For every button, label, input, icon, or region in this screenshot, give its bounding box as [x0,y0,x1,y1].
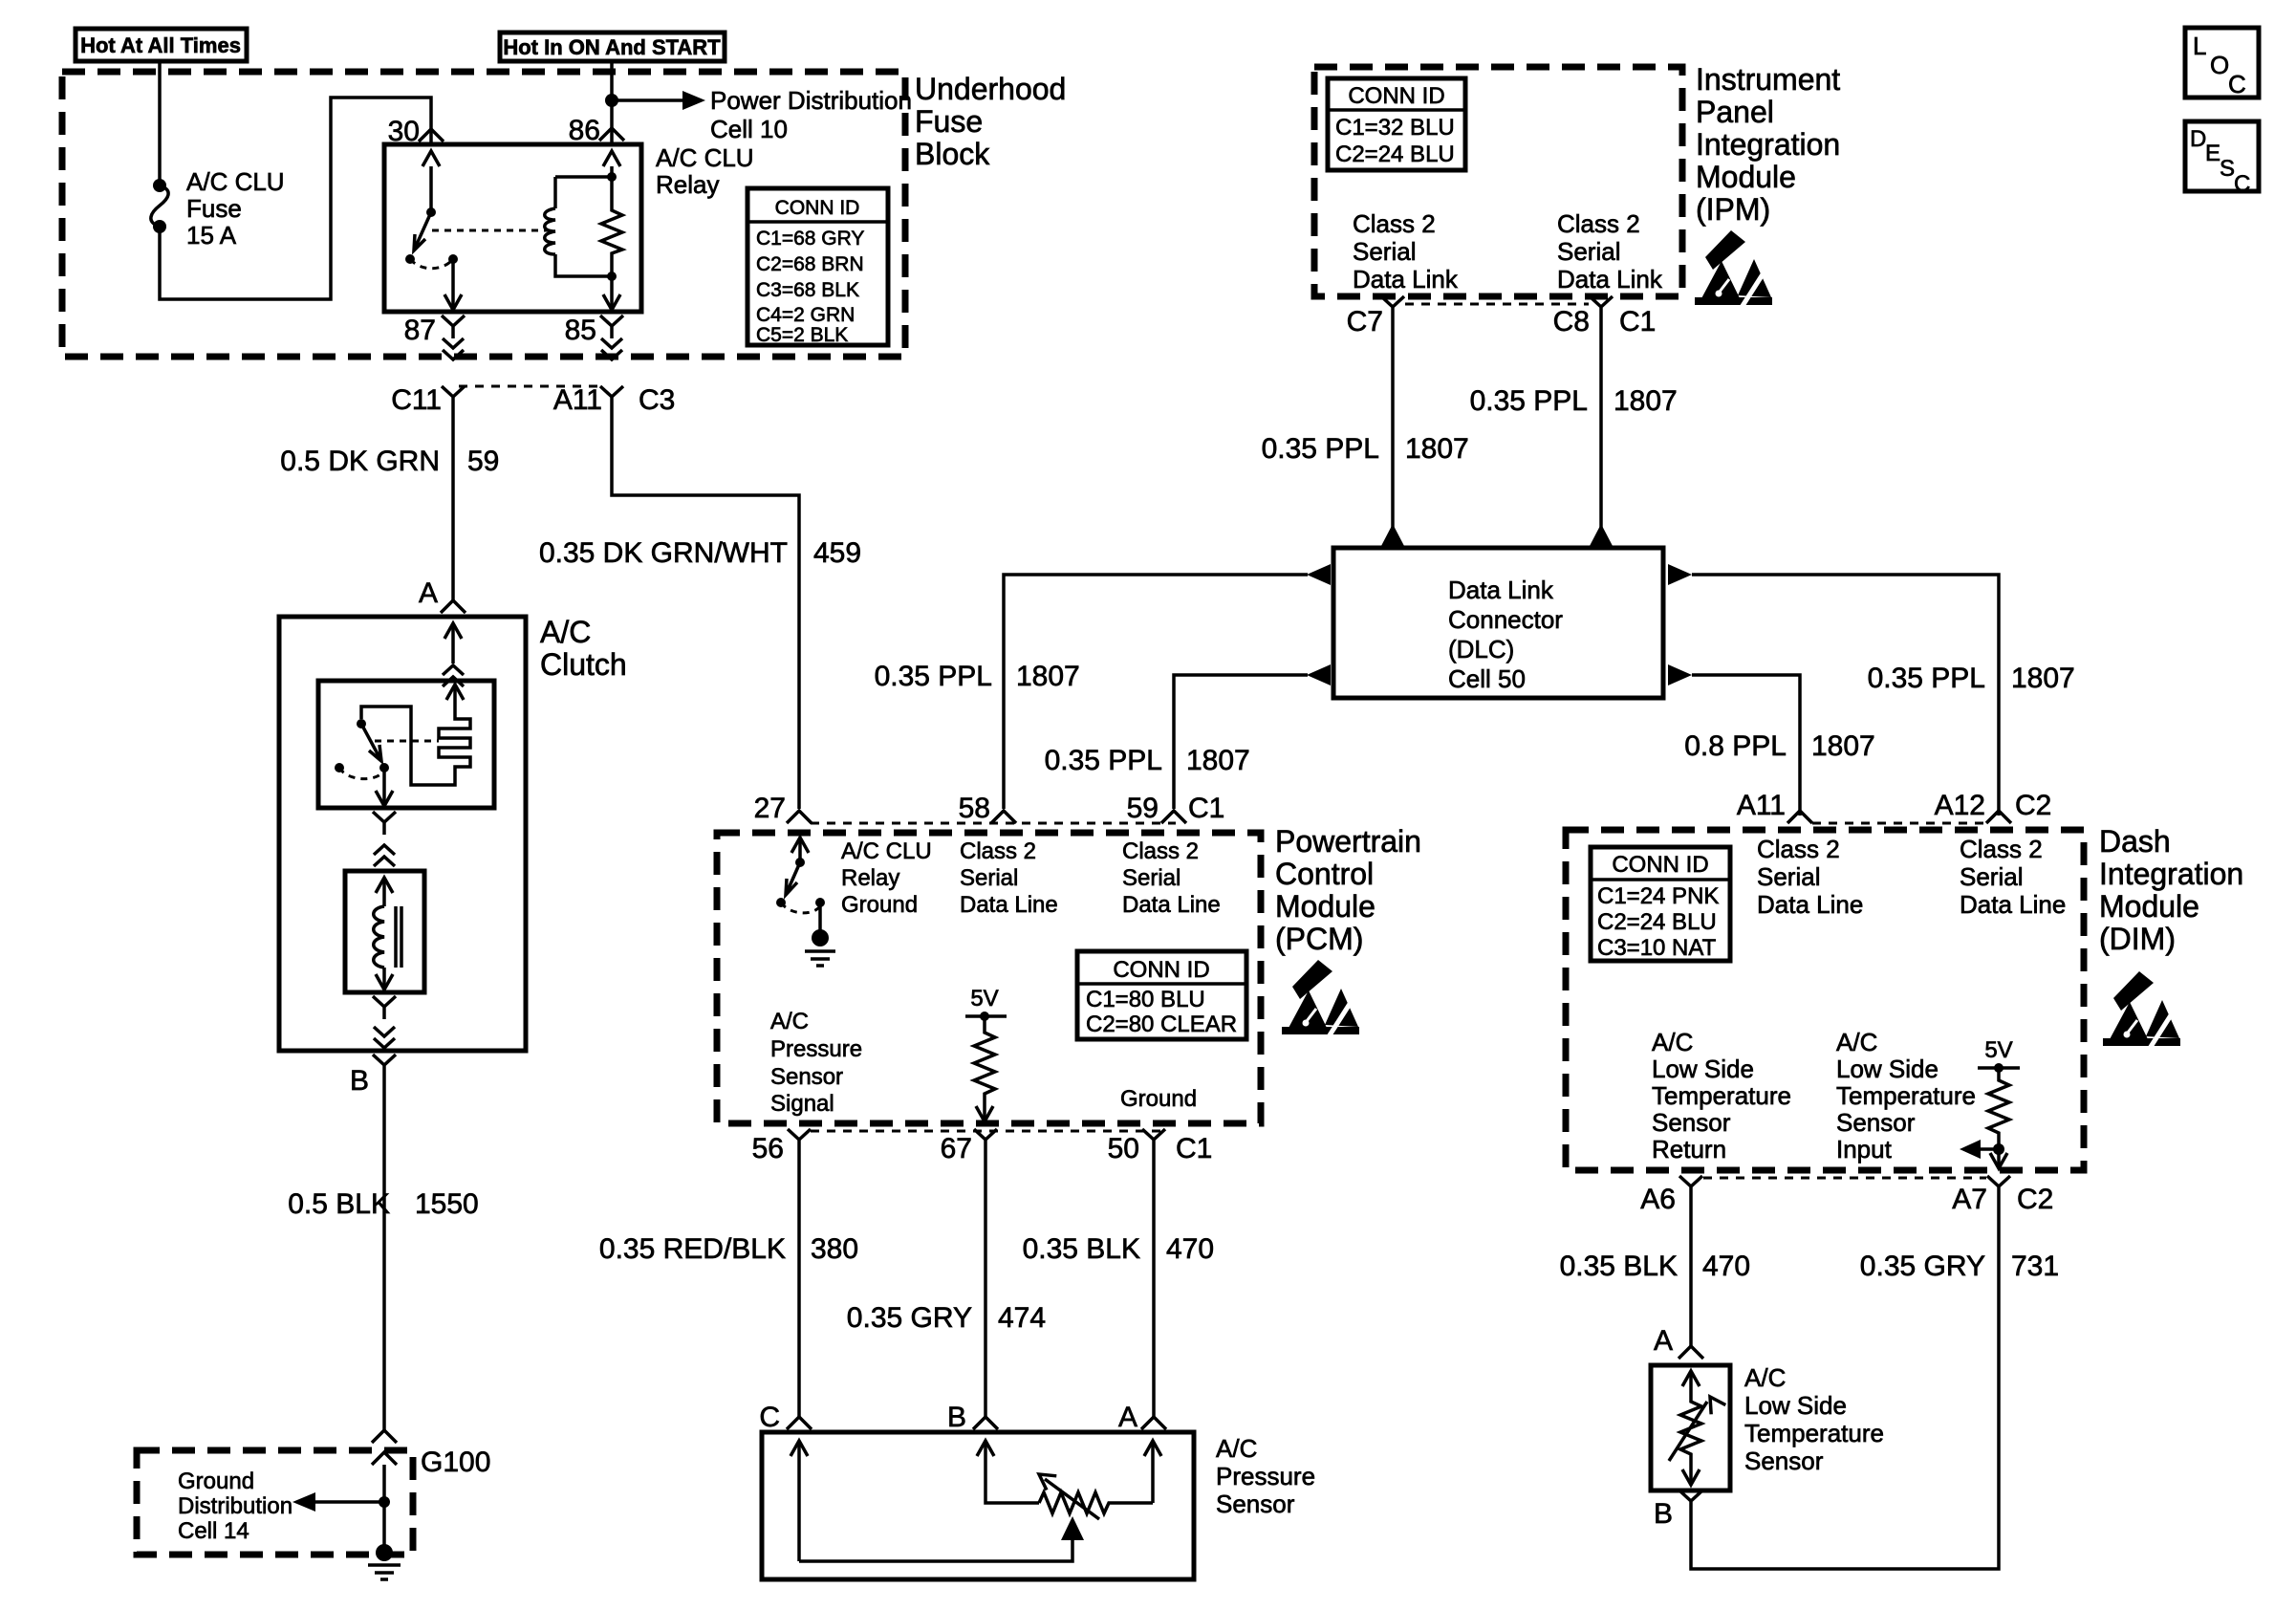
label: A/C Clutch [540,615,627,682]
svg-text:Panel: Panel [1696,95,1774,129]
CONN ID table (fuse block) [747,188,888,346]
svg-text:(DIM): (DIM) [2099,922,2176,956]
svg-text:(PCM): (PCM) [1275,922,1363,956]
terminal A connector (temp sensor) [1679,1346,1703,1359]
terminal A7 connector [1987,1176,2010,1199]
svg-text:Temperature: Temperature [1836,1081,1976,1110]
svg-text:Serial: Serial [1960,862,2023,891]
svg-text:E: E [2205,141,2220,166]
svg-text:Block: Block [915,137,990,171]
header box: Hot In ON And START [500,33,725,61]
pressure sensor C entry arrow [791,1441,808,1561]
svg-text:1550: 1550 [415,1188,479,1220]
svg-text:Pressure: Pressure [770,1036,862,1062]
svg-text:A: A [419,577,438,609]
pressure sensor B entry arrow [977,1441,1039,1503]
svg-text:1807: 1807 [1405,433,1469,465]
svg-text:Relay: Relay [656,170,719,199]
PCM relay-ground switch post [791,838,809,867]
terminal 30 connector [419,129,444,141]
svg-text:50: 50 [1108,1133,1139,1164]
wire from Hot At All Times to fuse [158,61,162,185]
CONN ID table (PCM) [1077,951,1246,1039]
svg-text:C2=80 CLEAR: C2=80 CLEAR [1086,1012,1237,1037]
svg-text:Cell 14: Cell 14 [178,1518,249,1544]
svg-text:0.35 DK GRN/WHT: 0.35 DK GRN/WHT [539,537,788,569]
svg-text:C2=68 BRN: C2=68 BRN [756,253,864,275]
clutch coil L [374,906,384,968]
svg-text:Module: Module [2099,889,2199,924]
svg-text:C1=80 BLU: C1=80 BLU [1086,987,1205,1012]
svg-text:474: 474 [998,1302,1046,1334]
wire temp sensor B to DIM A7 (0.35 GRY 731) [1691,1199,1999,1569]
relay coil link dashed [432,229,548,232]
clutch switch open contact [335,763,344,772]
header box: Hot At All Times [76,29,247,61]
svg-text:C: C [759,1402,780,1433]
terminal B connector [373,1055,396,1077]
svg-text:C2=24 BLU: C2=24 BLU [1335,141,1455,167]
fuse F (A/C CLU Fuse 15A) [151,179,168,233]
terminal 59 connector [1161,811,1186,823]
temp sensor entry arrow [1682,1371,1700,1398]
temp sensor thermistor RT [1680,1398,1701,1459]
DIM 5V rail [1978,1063,2020,1073]
svg-text:A/C: A/C [1216,1434,1257,1463]
svg-text:15 A: 15 A [186,221,237,250]
svg-text:5V: 5V [970,986,998,1012]
connector above coil box [374,845,395,866]
label: Class 2 Serial Data Link (C7) [1353,209,1459,294]
A/C low side temperature sensor box [1651,1365,1730,1490]
terminal A12 connector (DIM) [1986,811,2011,823]
svg-text:67: 67 [941,1133,972,1164]
svg-text:459: 459 [813,537,861,569]
DLC right arrow bottom [1668,664,1692,685]
svg-text:O: O [2210,51,2229,79]
svg-text:A/C: A/C [770,1009,809,1034]
svg-text:86: 86 [569,115,600,146]
G100 dashed box [137,1450,413,1555]
svg-text:Input: Input [1836,1135,1893,1164]
svg-text:470: 470 [1166,1233,1214,1265]
svg-text:0.35 BLK: 0.35 BLK [1023,1233,1140,1265]
svg-text:A/C: A/C [1836,1028,1877,1056]
svg-text:0.35 PPL: 0.35 PPL [1262,433,1379,465]
svg-text:27: 27 [754,793,786,824]
svg-text:0.8 PPL: 0.8 PPL [1684,730,1787,762]
PCM 5V rail [965,1012,1007,1021]
svg-text:CONN ID: CONN ID [1348,83,1444,109]
svg-text:Class 2: Class 2 [1960,835,2043,863]
G100 wire [382,1465,386,1553]
wire DLC to DIM A12 (0.35 PPL 1807) [1692,575,1999,816]
svg-text:Module: Module [1275,889,1375,924]
svg-text:Connector: Connector [1448,605,1563,634]
svg-text:Data Line: Data Line [1960,890,2066,919]
svg-text:Low Side: Low Side [1652,1055,1754,1083]
terminal C connector (pressure sensor) [787,1417,812,1429]
label: Class 2 Serial Data Line (A12 DIM) [1960,835,2066,919]
svg-text:Fuse: Fuse [186,194,242,223]
G100 inner connector [372,1452,397,1465]
label: Underhood Fuse Block [915,72,1066,171]
DIM sensor input arrow [1960,1140,1999,1159]
label: Powertrain Control Module (PCM) [1275,824,1421,956]
svg-text:Class 2: Class 2 [1557,209,1640,238]
svg-text:B: B [1654,1498,1673,1530]
label: Class 2 Serial Data Line (pin 59) [1122,838,1221,918]
svg-text:Power Distribution: Power Distribution [710,86,912,115]
IPM dashed box [1314,67,1682,296]
svg-text:Relay: Relay [841,865,899,891]
PCM switch contact node [815,898,825,907]
G100 entry connector [372,1430,397,1443]
svg-text:1807: 1807 [2011,663,2075,694]
label: Ground Distribution Cell 14 [178,1469,292,1544]
relay switch blade [405,212,431,264]
svg-text:58: 58 [959,793,990,824]
svg-text:A/C CLU: A/C CLU [841,838,932,864]
svg-text:Sensor: Sensor [1744,1447,1824,1475]
PCM resistor ground arrow [976,1105,993,1121]
PCM switch blade [776,862,800,907]
svg-text:Data Link: Data Link [1557,265,1663,294]
svg-text:C1=32 BLU: C1=32 BLU [1335,115,1455,141]
PCM top connector dashed line [811,822,1176,825]
svg-text:Class 2: Class 2 [960,838,1036,864]
svg-text:Module: Module [1696,160,1796,194]
clutch switch blade [361,724,389,772]
svg-text:Clutch: Clutch [540,647,627,682]
CONN ID table (DIM) [1591,847,1730,961]
svg-text:0.35 PPL: 0.35 PPL [1868,663,1985,694]
PCM bottom connector dashed line [811,1130,1164,1133]
svg-text:0.35 RED/BLK: 0.35 RED/BLK [599,1233,786,1265]
svg-text:Hot In ON And START: Hot In ON And START [503,35,721,59]
svg-text:Distribution: Distribution [178,1493,292,1519]
svg-text:C: C [2228,70,2246,98]
terminal 67 connector [974,1129,997,1152]
PCM pull-up resistor [974,1016,995,1105]
svg-text:0.35 GRY: 0.35 GRY [847,1302,972,1334]
svg-text:C5=2 BLK: C5=2 BLK [756,324,848,346]
coil entry arrow [376,878,393,906]
DLC left arrow bottom [1307,664,1331,685]
clutch exit boundary arrows [374,1027,395,1048]
svg-text:Return: Return [1652,1135,1726,1164]
wire PCM 50 to pressure sensor A (0.35 BLK 470) [1152,1152,1156,1417]
wire C7 to DLC (0.35 PPL 1807) [1391,319,1395,528]
svg-text:1807: 1807 [1016,661,1080,692]
svg-text:Ground: Ground [841,892,918,918]
svg-text:C1: C1 [1188,793,1224,824]
wire A6 to temp sensor (0.35 BLK 470) [1689,1199,1693,1346]
svg-text:0.35 BLK: 0.35 BLK [1560,1251,1678,1282]
svg-text:Data Link: Data Link [1353,265,1459,294]
svg-text:A6: A6 [1640,1184,1676,1215]
label: A/C CLU Relay [656,143,754,199]
svg-text:Instrument: Instrument [1696,62,1840,97]
DLC left arrow top [1307,564,1331,585]
coil exit arrow [376,968,393,990]
CONN ID table (IPM) [1328,78,1465,170]
svg-text:5V: 5V [1984,1037,2012,1063]
PCM switch dashed arc [781,903,819,913]
relay switch contact dashed arc [410,259,453,269]
relay switch pin30 post [422,151,440,217]
svg-text:0.35 PPL: 0.35 PPL [1045,745,1162,776]
label: A/C Low Side Temperature Sensor Input [1836,1028,1976,1164]
DLC top arrow C8 [1590,524,1613,546]
svg-text:A/C: A/C [540,615,591,649]
relay K (A/C CLU Relay) box [384,144,641,312]
svg-text:Temperature: Temperature [1652,1081,1791,1110]
terminal A connector [441,600,466,613]
label: Power Distribution Cell 10 [710,86,912,143]
wire from Hot In ON And START to relay pin 86 [610,61,614,144]
terminal C8 connector [1590,296,1613,319]
svg-text:Pressure: Pressure [1216,1462,1315,1490]
wire from fuse to relay pin 30 [160,98,431,299]
svg-text:Dash: Dash [2099,824,2171,859]
terminal 58 connector [991,811,1016,823]
svg-text:Low Side: Low Side [1744,1391,1847,1420]
label: Data Link Connector (DLC) Cell 50 [1448,576,1563,693]
wire C11 to A/C clutch (0.5 DK GRN 59) [451,409,455,600]
clutch entry arrow [444,623,462,664]
arrow to Power Distribution Cell 10 [612,91,705,110]
coil core lines [396,906,401,968]
svg-text:Integration: Integration [2099,857,2243,891]
temp sensor exit arrow [1682,1459,1700,1485]
label: Instrument Panel Integration Module (IPM) [1696,62,1840,227]
svg-text:C7: C7 [1347,306,1383,337]
svg-text:0.5 BLK: 0.5 BLK [288,1188,390,1220]
thermistor variable arrow [1669,1392,1725,1461]
svg-text:C: C [2234,171,2250,197]
clutch switch output wire [376,768,393,806]
svg-text:Serial: Serial [1353,237,1416,266]
DLC box [1333,548,1663,698]
label: A/C Low Side Temperature Sensor Return [1652,1028,1791,1164]
svg-text:Fuse: Fuse [915,104,983,139]
svg-text:0.35 PPL: 0.35 PPL [1470,385,1588,417]
relay switch contact node [448,254,458,264]
svg-text:L: L [2193,32,2206,60]
svg-text:Control: Control [1275,857,1374,891]
node: junction power distribution [605,94,618,107]
svg-text:G100: G100 [421,1447,490,1478]
svg-text:C2: C2 [2017,1184,2053,1215]
svg-text:S: S [2220,156,2235,182]
svg-text:B: B [350,1065,369,1097]
svg-text:B: B [947,1402,966,1433]
svg-text:Temperature: Temperature [1744,1419,1884,1447]
DIM bottom connector dashed line [1703,1177,1986,1180]
svg-text:Sensor: Sensor [1216,1490,1295,1518]
wire PCM 67 to pressure sensor B (0.35 GRY 474) [984,1152,987,1417]
svg-text:Serial: Serial [1122,865,1180,891]
thermal fuse comb [439,715,470,772]
terminal 27 connector [787,811,812,823]
svg-text:Hot At All Times: Hot At All Times [80,33,241,57]
connector C11 [442,386,465,409]
svg-text:A11: A11 [1737,790,1786,821]
potentiometer wiper arrow [799,1516,1084,1561]
DIM pull-up resistor [1988,1068,2009,1149]
wire 87 through boundary [443,338,464,359]
wire C8 to DLC (0.35 PPL 1807) [1599,319,1603,528]
svg-text:Powertrain: Powertrain [1275,824,1421,859]
thermal fuse entry arrow [446,685,464,715]
svg-text:Data Line: Data Line [1122,892,1221,918]
wire DLC to DIM A11 (0.8 PPL 1807) [1692,675,1800,816]
relay pin86-85 wire [603,151,620,310]
connector boundary dashed line C11-A11 [459,385,604,388]
clutch switch dashed link [375,740,439,743]
terminal 50 connector [1142,1129,1165,1152]
G100 junction node [379,1496,390,1508]
svg-text:Data Link: Data Link [1448,576,1554,604]
connector below switch box [373,812,396,835]
label: Dash Integration Module (DIM) [2099,824,2243,956]
svg-text:A/C CLU: A/C CLU [186,167,285,196]
terminal 56 connector [788,1129,811,1152]
svg-text:Sensor: Sensor [770,1064,843,1090]
svg-text:87: 87 [404,315,436,346]
svg-text:Ground: Ground [1120,1086,1197,1112]
A/C clutch box [279,617,526,1051]
wire PCM 58 to DLC [1004,575,1308,809]
svg-text:C3=68 BLK: C3=68 BLK [756,279,859,301]
PCM dashed box [717,833,1261,1123]
svg-text:Underhood: Underhood [915,72,1066,106]
pressure sensor A entry arrow [1144,1441,1161,1503]
clutch coil box [345,871,424,992]
svg-text:A12: A12 [1935,790,1985,821]
label: Class 2 Serial Data Line (pin 58) [960,838,1058,918]
relay coil [545,177,612,276]
svg-text:A/C: A/C [1744,1363,1786,1392]
DIM top connector dashed line [1812,822,1986,825]
svg-text:Class 2: Class 2 [1757,835,1840,863]
svg-text:(IPM): (IPM) [1696,192,1770,227]
svg-text:Low Side: Low Side [1836,1055,1939,1083]
svg-text:Serial: Serial [1557,237,1620,266]
svg-text:A: A [1118,1402,1137,1433]
clutch thermal switch box [318,681,494,808]
svg-text:380: 380 [811,1233,858,1265]
svg-text:Ground: Ground [178,1469,254,1494]
svg-text:D: D [2190,126,2206,152]
LOC box [2185,28,2259,98]
thermal fuse return wire [361,707,455,785]
relay resistor [601,206,622,256]
clutch switch pivot [357,719,366,729]
svg-text:A/C: A/C [1652,1028,1693,1056]
svg-text:731: 731 [2011,1251,2059,1282]
svg-text:Signal: Signal [770,1091,834,1117]
svg-text:Serial: Serial [1757,862,1820,891]
ESD symbol DIM [2103,971,2180,1050]
svg-text:Data Line: Data Line [1757,890,1863,919]
label: Class 2 Serial Data Link (C8) [1557,209,1663,294]
wire PCM 56 to pressure sensor C (0.35 RED/BLK 380) [797,1152,801,1417]
svg-text:0.35 GRY: 0.35 GRY [1860,1251,1985,1282]
clutch switch dashed arc [339,768,382,779]
terminal B connector (temp sensor) [1679,1490,1702,1513]
connector A11 [600,386,623,409]
connector below coil box [373,996,396,1019]
DESC box [2185,121,2259,197]
svg-text:Class 2: Class 2 [1353,209,1436,238]
svg-text:C1=24 PNK: C1=24 PNK [1597,883,1719,909]
ground symbol (PCM internal) [805,929,835,966]
wire 85 through boundary [601,338,622,359]
svg-text:59: 59 [1127,793,1159,824]
svg-text:C3=10 NAT: C3=10 NAT [1597,935,1717,961]
wire PCM 59 to DLC [1174,675,1308,809]
svg-text:Sensor: Sensor [1836,1108,1916,1137]
svg-text:Cell 50: Cell 50 [1448,664,1526,693]
label: Class 2 Serial Data Line (A11 DIM) [1757,835,1863,919]
terminal 87 connector [442,315,465,338]
label: A/C CLU Relay Ground [841,838,932,918]
svg-text:0.5 DK GRN: 0.5 DK GRN [280,446,440,477]
ESD symbol PCM [1282,960,1359,1038]
svg-text:1807: 1807 [1614,385,1678,417]
underhood fuse block dashed box [62,72,905,357]
terminal A11 connector (DIM) [1787,811,1812,823]
potentiometer diagonal arrow [1034,1468,1099,1519]
label: A/C Low Side Temperature Sensor [1744,1363,1884,1475]
svg-text:Serial: Serial [960,865,1018,891]
svg-text:Sensor: Sensor [1652,1108,1731,1137]
terminal 86 connector [599,128,624,141]
terminal A connector (pressure sensor) [1141,1417,1166,1429]
relay pin87 internal wire [444,259,462,310]
wire A11/C3 to PCM 27 (0.35 DK GRN/WHT 459) [612,409,799,809]
svg-text:CONN ID: CONN ID [775,197,860,219]
svg-text:A/C CLU: A/C CLU [656,143,754,172]
svg-text:A11: A11 [553,384,602,416]
svg-text:A: A [1654,1325,1673,1357]
svg-text:Cell 10: Cell 10 [710,115,788,143]
DIM dashed box [1566,830,2084,1170]
svg-text:56: 56 [752,1133,784,1164]
DIM resistor bottom arrow [1990,1149,2007,1168]
terminal C7 connector [1381,296,1404,319]
svg-text:C8: C8 [1553,306,1590,337]
svg-text:(DLC): (DLC) [1448,635,1514,664]
svg-text:C2=24 BLU: C2=24 BLU [1597,909,1717,935]
svg-text:C4=2 GRN: C4=2 GRN [756,304,855,326]
DLC right arrow top [1668,564,1692,585]
ESD symbol IPM [1695,230,1772,309]
DIM junction node [1993,1143,2004,1155]
A/C pressure sensor box [762,1432,1194,1579]
PCM internal ground wire [818,903,822,931]
label: A/C Pressure Sensor [1216,1434,1315,1518]
ground G100 symbol [368,1544,401,1579]
svg-text:1807: 1807 [1811,730,1875,762]
IPM bottom connector dashed line [1405,303,1589,306]
wire B to G100 (0.5 BLK 1550) [382,1077,386,1430]
terminal A6 connector [1679,1176,1702,1199]
svg-text:59: 59 [467,446,499,477]
label: A/C Pressure Sensor Signal [770,1009,862,1117]
